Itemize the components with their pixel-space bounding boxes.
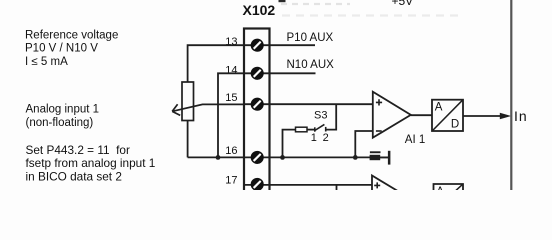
svg-text:2: 2 (323, 132, 329, 144)
op-amp AI2 (partial) (372, 176, 410, 222)
terminal 15 screw (251, 98, 263, 110)
svg-text:+5V: +5V (392, 0, 414, 8)
wire through block 16 (244, 156, 270, 158)
A/D converter U1 diagonal (433, 100, 463, 130)
svg-text:1: 1 (311, 132, 317, 144)
wire pot bottom to node (187, 121, 189, 158)
svg-text:(non-floating): (non-floating) (26, 117, 94, 129)
svg-text:I ≤ 5 mA: I ≤ 5 mA (25, 56, 68, 68)
A/D converter U1 box (432, 100, 463, 131)
terminal 16 screw (251, 152, 263, 164)
svg-text:14: 14 (225, 65, 237, 77)
svg-text:P10 AUX: P10 AUX (287, 32, 334, 44)
A/D converter U2 diagonal (partial) (455, 184, 463, 191)
svg-text:N10 AUX: N10 AUX (287, 59, 335, 71)
faint erased text row 2 (282, 14, 460, 16)
svg-text:X102: X102 (243, 2, 276, 18)
ground bar M (388, 151, 391, 165)
arrowhead In (500, 113, 512, 119)
wire terminal 14 left (218, 73, 244, 157)
node junction inverting branch (353, 155, 358, 160)
svg-text:P10 V / N10 V: P10 V / N10 V (25, 43, 98, 55)
wire contact 2 to riser (326, 104, 337, 129)
svg-text:Reference voltage: Reference voltage (25, 30, 118, 42)
wire A/D to In (463, 115, 503, 117)
svg-text:A: A (436, 186, 444, 190)
switch S3 contact 2 (325, 127, 327, 132)
switch S3 blade (315, 124, 325, 130)
wire through block 17 (244, 184, 270, 186)
svg-text:D: D (451, 119, 459, 131)
svg-text:A: A (435, 102, 443, 114)
op-amp AI1 (373, 92, 411, 138)
node junction S3 branch (280, 155, 285, 160)
svg-text:S3: S3 (314, 110, 327, 122)
svg-text:17: 17 (225, 174, 237, 186)
op-amp AI1 minus sign (376, 130, 382, 132)
svg-text:In: In (514, 108, 528, 124)
wire through block 14 (244, 72, 270, 74)
wire S3 branch riser (283, 130, 296, 158)
A/D converter U2 box (partial) (434, 184, 464, 196)
terminal 13 screw (251, 39, 263, 51)
terminal 14 screw (251, 68, 263, 80)
op-amp AI2 plus sign (374, 182, 380, 188)
wire through block 15 (244, 103, 270, 105)
wire terminal 17 to op-amp AI2 (270, 184, 373, 186)
filter element thin bar (370, 151, 381, 153)
svg-text:15: 15 (225, 92, 237, 104)
faint erased text row 1 (281, 3, 350, 5)
svg-text:Analog input 1: Analog input 1 (26, 103, 100, 115)
svg-text:AI 1: AI 1 (405, 134, 425, 146)
terminal 17 screw (251, 179, 263, 191)
wire terminal 16 to filter (270, 156, 389, 158)
terminal block X102 (244, 29, 270, 194)
svg-text:Set P443.2 = 11 for: Set P443.2 = 11 for (26, 143, 130, 157)
wire terminal 15 left (wiper) (173, 104, 244, 111)
wire P10 AUX stub (270, 44, 316, 46)
wire through block 13 (244, 44, 270, 46)
wire terminal 15 to op-amp (270, 103, 373, 105)
op-amp AI1 plus sign (376, 99, 382, 105)
wire filter to ground bar (380, 156, 388, 158)
wire terminal 16 left (188, 156, 244, 158)
resistor R (S3 series) (296, 127, 308, 132)
potentiometer R (body) (182, 82, 194, 121)
wire AI2 branch stub (336, 185, 338, 190)
cut-off artifact dash top-left (279, 0, 286, 2)
wiper arrowhead (172, 104, 180, 115)
wire terminal 13 left (188, 45, 244, 82)
svg-text:16: 16 (225, 145, 237, 157)
node junction 14/16 (216, 155, 221, 160)
svg-text:13: 13 (225, 36, 237, 48)
wire N10 AUX stub (270, 72, 316, 74)
switch S3 contact 1 (314, 127, 316, 131)
board boundary (510, 0, 512, 190)
wire op-amp to A/D (411, 114, 432, 116)
wire resistor to contact 1 (307, 129, 315, 131)
filter element body (filled) (370, 155, 381, 160)
wire inverting input riser (355, 131, 373, 157)
svg-text:in BICO data set 2: in BICO data set 2 (26, 169, 122, 183)
svg-text:fsetp from analog input 1: fsetp from analog input 1 (26, 156, 156, 170)
